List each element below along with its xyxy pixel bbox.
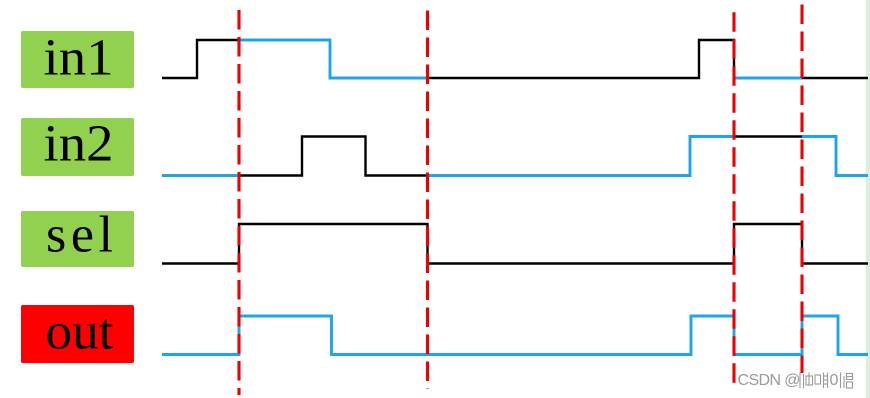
label sel	[21, 207, 134, 268]
dashed line t4	[800, 5, 803, 374]
watermark CJK glyph ka	[800, 373, 813, 389]
wire in1 black segment 3	[802, 77, 868, 79]
label in1	[21, 30, 134, 89]
label in2	[21, 116, 134, 177]
svg-text:sel: sel	[46, 207, 113, 264]
svg-text:out: out	[46, 304, 115, 361]
label out	[21, 304, 134, 364]
svg-text:CSDN @: CSDN @	[738, 372, 800, 389]
watermark CJK glyph tang	[841, 373, 853, 389]
dashed line t2	[426, 11, 429, 390]
wire in1 blue segment 2	[734, 77, 802, 80]
wire out blue	[162, 316, 868, 355]
svg-text:in2: in2	[44, 116, 114, 173]
svg-text:in1: in1	[44, 30, 114, 87]
wire in2 blue segment 3	[802, 137, 868, 176]
wire in2 black segment 2	[734, 135, 802, 137]
watermark CJK glyph fei	[815, 373, 828, 389]
svg-text:0: 0	[830, 372, 839, 389]
wire in1 black segment 1	[162, 40, 239, 78]
wire in1 blue segment	[239, 40, 428, 78]
dashed line t3	[732, 12, 735, 390]
wire sel black	[162, 224, 868, 264]
wire in2 blue segment 1	[162, 174, 239, 177]
right edge green stripe	[866, 0, 870, 398]
dashed line t1	[237, 10, 240, 395]
wire in1 black segment 2	[428, 40, 735, 78]
wire in2 black segment 1	[239, 137, 428, 176]
wire in2 blue segment 2	[428, 137, 735, 176]
